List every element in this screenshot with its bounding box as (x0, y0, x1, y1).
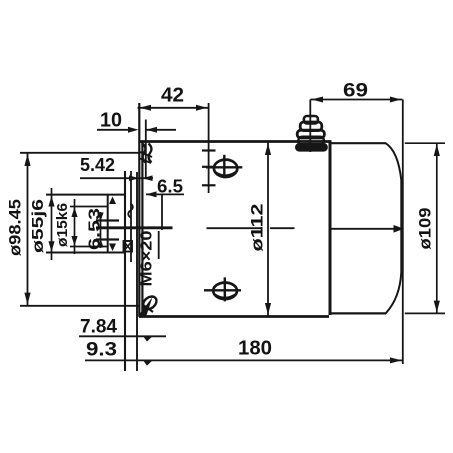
svg-text:5.42: 5.42 (80, 155, 115, 175)
svg-text:M6×20: M6×20 (139, 230, 156, 286)
svg-text:6.53: 6.53 (87, 207, 104, 250)
dimension 6.53 line (100, 212, 102, 248)
dimension o15k6 line (74, 199, 76, 254)
shaft lower edge (96, 238, 119, 240)
dimension 180 left tick (144, 361, 153, 366)
dimension 5.42 right arrow (143, 175, 153, 181)
dimension o15k6 top extension (70, 206, 108, 208)
dimension o55j6 bottom extension (46, 252, 125, 254)
dimension 6.5 arrow (146, 191, 157, 197)
dimension o109 top extension (405, 142, 445, 144)
svg-text:42: 42 (161, 85, 184, 107)
upper screw head (214, 160, 237, 177)
boss front face (124, 171, 126, 371)
shaft upper edge (96, 219, 119, 221)
axis centerline right segment (331, 228, 396, 230)
svg-text:7.84: 7.84 (80, 316, 117, 338)
dimension 42 left arrow (140, 105, 152, 111)
dimension 10 right arrow (147, 127, 158, 133)
dimension 42 right arrow (196, 105, 207, 111)
horizontal axis centerline hub segment (96, 226, 173, 229)
dimension o112 bottom arrow (265, 303, 271, 315)
terminal stud cap (304, 116, 318, 124)
dimension 6.5 extension vertical (161, 194, 163, 230)
dimension 6.53 bottom arrow (97, 239, 103, 248)
label M6x20 underline (158, 231, 160, 259)
lower screw inner arc (214, 294, 236, 298)
flange hole hatch detail top (143, 144, 146, 163)
terminal boot plate (296, 144, 327, 150)
body outline bottom edge (139, 315, 329, 318)
dimension o55j6 top extension (46, 194, 125, 196)
dimension 10 left arrow (128, 127, 139, 133)
rear housing top edge (330, 142, 386, 144)
upper screw cross horizontal (206, 166, 242, 168)
dimension 69 line (310, 99, 402, 101)
lower screw cross vertical (224, 277, 226, 301)
shaft lower arrowhead (109, 244, 116, 252)
dimension o98.45 bottom extension (20, 305, 139, 307)
label 7.84 leader (79, 335, 166, 337)
shaft upper arrowhead (109, 197, 116, 205)
body outline top edge (139, 140, 332, 143)
body/rear-housing joint line (329, 143, 332, 316)
screw centerline tick 2 (202, 166, 213, 168)
terminal stud nut (300, 122, 322, 131)
dimension o15k6 bottom extension (70, 246, 108, 248)
dimension 10 underline (97, 129, 131, 131)
dimension 69 left arrow (312, 97, 324, 103)
rear housing end cap curve (386, 143, 402, 313)
dimension o109 line (436, 143, 438, 313)
dimension 5.42 left arrow (129, 175, 139, 181)
dimension o112 top arrow (265, 143, 271, 155)
lower screw head (213, 283, 237, 299)
M6 hole leader arrow (138, 297, 153, 317)
terminal stud centerline (309, 100, 311, 153)
dimension 6.53 top arrow (97, 213, 103, 222)
M6 hole hatched detail (141, 294, 159, 312)
terminal stud base (298, 137, 323, 145)
dimension 5.42 leader (80, 177, 153, 179)
dimension o112 line (267, 143, 269, 316)
shaft break squiggle (128, 204, 133, 218)
dimension o98.45 top extension (20, 152, 139, 154)
flange face rear line (141, 142, 143, 317)
dimension o55j6 line (51, 188, 53, 260)
dimension o55j6 bottom arrow (48, 241, 54, 252)
screw centerline tick 3 (202, 184, 216, 186)
dimension 6.5 line (146, 193, 184, 195)
terminal stud collar (297, 130, 324, 138)
dimension 10 right leader (147, 129, 177, 131)
svg-text:ø109: ø109 (417, 208, 435, 250)
boss chamfer line (130, 171, 132, 262)
axis centerline arrowhead (394, 225, 405, 233)
dimension o109 bottom arrow (434, 301, 440, 313)
extension line right shared 69 and 180 (402, 100, 404, 365)
dimension 10 tick line (145, 120, 147, 180)
flange auxiliary vertical (136, 172, 138, 371)
horizontal axis centerline middle dash (207, 227, 262, 229)
dimension o15k6 bottom arrow (71, 236, 77, 246)
screw centerline tick 1 (202, 149, 216, 151)
svg-text:10: 10 (100, 110, 122, 132)
svg-text:ø98.45: ø98.45 (7, 199, 25, 256)
shaft end face (107, 195, 109, 254)
dimension o98.45 top arrow (24, 154, 30, 166)
screw hole centerline vertical (208, 103, 210, 193)
key cross box X (124, 241, 133, 252)
upper screw inner arc (215, 172, 237, 176)
flange face front line (138, 103, 140, 317)
svg-text:69: 69 (343, 80, 368, 102)
dimension o55j6 top arrow (48, 196, 54, 207)
dimension 42 line (138, 107, 210, 109)
svg-text:ø55j6: ø55j6 (30, 198, 47, 253)
horizontal axis centerline right dash (270, 227, 295, 229)
svg-text:9.3: 9.3 (86, 339, 117, 361)
dimension o109 bottom extension (405, 312, 445, 314)
key cross box (124, 241, 133, 252)
rear housing bottom edge (330, 312, 386, 314)
dimension o98.45 bottom arrow (24, 293, 30, 305)
dimension 180 right arrow (390, 357, 402, 363)
dimension o98.45 line (27, 153, 29, 306)
dimension 69 right arrow (390, 97, 401, 103)
svg-text:180: 180 (238, 338, 272, 360)
dimension 180 line shared with 9.3 leader (85, 359, 403, 361)
label 7.84 tick (144, 337, 153, 342)
lower screw cross horizontal (204, 289, 241, 291)
upper screw cross vertical (223, 155, 225, 178)
dimension o15k6 top arrow (71, 207, 77, 217)
dimension o109 top arrow (434, 144, 440, 156)
svg-text:6.5: 6.5 (157, 176, 183, 197)
svg-text:ø112: ø112 (249, 204, 267, 252)
svg-text:ø15k6: ø15k6 (54, 203, 71, 247)
